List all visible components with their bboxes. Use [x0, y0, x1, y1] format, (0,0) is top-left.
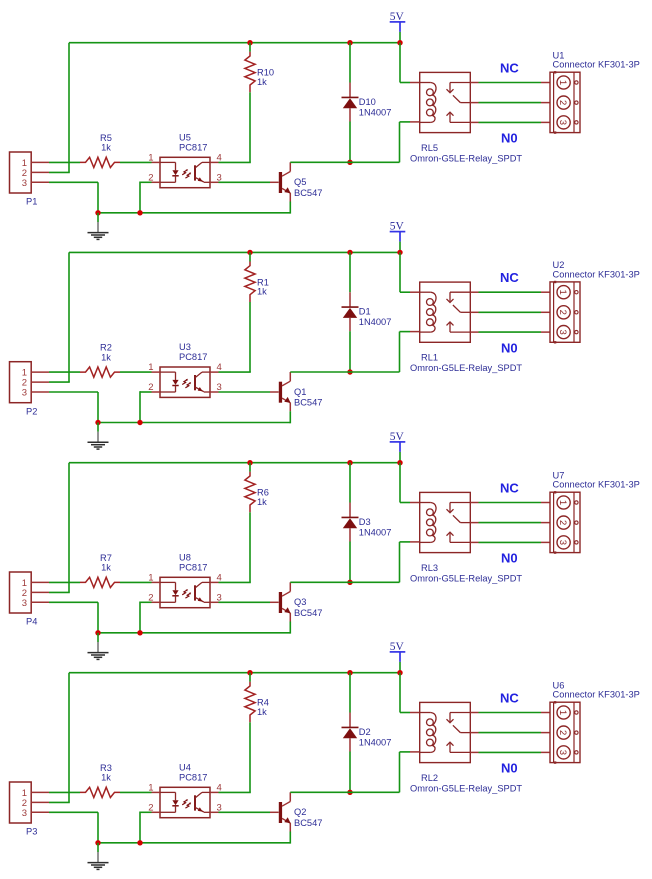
svg-text:3: 3	[22, 598, 27, 609]
wire emitter to ground rail	[289, 622, 291, 634]
wire R1 to opto pin4	[219, 302, 251, 372]
ground symbol	[88, 633, 109, 660]
svg-text:RL3: RL3	[421, 563, 438, 573]
svg-text:1k: 1k	[257, 77, 267, 87]
svg-text:NC: NC	[500, 270, 519, 285]
connector U2 KF301-3P terminal	[541, 281, 580, 344]
svg-text:D1: D1	[359, 307, 371, 317]
wire 5V stub down to rail	[399, 452, 401, 463]
node N0 label	[501, 551, 518, 566]
junction ground/pin3	[95, 840, 100, 845]
label D10 1N4007	[359, 97, 392, 118]
wire 5V stub down to rail	[399, 662, 401, 673]
wire rail to resistor R4	[249, 673, 251, 682]
node NC label	[500, 480, 519, 495]
wire rail to diode D1	[349, 252, 351, 292]
connector P3 (3-pin header)	[10, 782, 50, 823]
wire P2 pin3 down	[49, 392, 98, 423]
wire diode to collector net	[349, 542, 351, 583]
svg-text:P2: P2	[26, 406, 37, 416]
wire rail drop to P2 pin 2	[49, 252, 70, 382]
label R7 1k	[100, 553, 112, 573]
svg-text:Connector KF301-3P: Connector KF301-3P	[553, 269, 640, 279]
wire collector to relay coil	[290, 332, 410, 372]
svg-text:N0: N0	[501, 551, 518, 566]
svg-text:Omron-G5LE-Relay_SPDT: Omron-G5LE-Relay_SPDT	[410, 783, 522, 793]
junction rail/resistor	[247, 670, 252, 675]
wire rail to diode D3	[349, 463, 351, 503]
wire 5V stub down to rail	[399, 242, 401, 253]
svg-text:1k: 1k	[257, 707, 267, 717]
wire opto pin2 down to ground rail	[140, 602, 152, 633]
svg-text:Connector KF301-3P: Connector KF301-3P	[553, 480, 640, 490]
wire N0 net	[479, 541, 542, 543]
junction rail/5V/relay feed	[397, 670, 402, 675]
wire P1 pin3 down	[49, 182, 98, 213]
svg-text:1: 1	[557, 710, 568, 715]
wire bottom ground rail	[98, 842, 290, 844]
label U2 Connector KF301-3P	[553, 260, 640, 279]
wire COM net	[479, 311, 542, 313]
svg-text:N0: N0	[501, 131, 518, 146]
junction rail/diode	[347, 670, 352, 675]
wire rail drop to P4 pin 2	[49, 463, 70, 593]
junction rail/5V/relay feed	[397, 40, 402, 45]
wire rail to resistor R1	[249, 252, 251, 261]
pin numbers 1 2 3 4	[148, 782, 222, 813]
svg-text:PC817: PC817	[179, 352, 207, 362]
pin numbers 1 2 3 4	[148, 362, 222, 393]
node N0 label	[501, 131, 518, 146]
wire diode to collector net	[349, 331, 351, 372]
wire opto pin3 to base	[219, 601, 271, 603]
wire diode to collector net	[349, 752, 351, 793]
svg-text:U4: U4	[179, 763, 191, 773]
label P3	[26, 827, 37, 837]
wire opto pin2 down to ground rail	[140, 391, 152, 422]
svg-text:3: 3	[557, 120, 568, 125]
wire COM net	[479, 522, 542, 524]
svg-text:2: 2	[557, 520, 568, 525]
optocoupler U8 PC817	[152, 577, 219, 607]
wire NC net	[479, 82, 542, 84]
label U6 Connector KF301-3P	[553, 681, 640, 700]
resistor R5 1k (horizontal)	[80, 157, 120, 167]
svg-text:Q2: Q2	[294, 807, 306, 817]
resistor R1 1k (vertical)	[245, 262, 255, 303]
svg-text:NC: NC	[500, 480, 519, 495]
node N0 label	[501, 761, 518, 776]
svg-text:Connector KF301-3P: Connector KF301-3P	[553, 60, 640, 70]
wire 5V to relay coil top	[400, 43, 410, 83]
wire R4 to opto pin4	[219, 722, 251, 792]
wire opto pin3 to base	[219, 391, 271, 393]
svg-text:1: 1	[557, 290, 568, 295]
junction rail/diode	[347, 40, 352, 45]
svg-text:Omron-G5LE-Relay_SPDT: Omron-G5LE-Relay_SPDT	[410, 153, 522, 163]
svg-text:1k: 1k	[257, 287, 267, 297]
junction rail/diode	[347, 250, 352, 255]
relay RL2 Omron G5LE SPDT	[410, 702, 479, 762]
svg-text:P1: P1	[26, 197, 37, 207]
svg-text:Connector KF301-3P: Connector KF301-3P	[553, 690, 640, 700]
svg-text:1k: 1k	[101, 143, 111, 153]
resistor R10 1k (vertical)	[245, 52, 255, 93]
svg-text:Q3: Q3	[294, 597, 306, 607]
wire 5V to relay coil top	[400, 463, 410, 503]
svg-text:BC547: BC547	[294, 608, 322, 618]
svg-text:R7: R7	[100, 553, 112, 563]
label U4 PC817	[179, 763, 207, 783]
svg-text:D2: D2	[359, 727, 371, 737]
junction diode/collector	[347, 580, 352, 585]
diode D2 1N4007	[342, 713, 359, 752]
svg-text:2: 2	[557, 310, 568, 315]
wire rail to diode D10	[349, 43, 351, 83]
diode D3 1N4007	[342, 503, 359, 542]
wire resistor to opto pin 1	[120, 791, 152, 793]
power 5V flag (R4 block)	[390, 641, 406, 662]
label D1 1N4007	[359, 307, 392, 328]
svg-text:NC: NC	[500, 60, 519, 75]
value Omron-G5LE-Relay_SPDT	[410, 363, 522, 373]
wire resistor to opto pin 1	[120, 371, 152, 373]
svg-text:Omron-G5LE-Relay_SPDT: Omron-G5LE-Relay_SPDT	[410, 573, 522, 583]
svg-text:1: 1	[148, 572, 153, 583]
wire bottom ground rail	[98, 212, 290, 214]
relay RL5 Omron G5LE SPDT	[410, 72, 479, 132]
junction ground/opto pin2	[137, 630, 142, 635]
resistor R2 1k (horizontal)	[80, 367, 120, 377]
svg-text:1: 1	[557, 80, 568, 85]
junction rail/5V/relay feed	[397, 250, 402, 255]
label Q1 BC547	[294, 387, 322, 408]
svg-text:3: 3	[22, 388, 27, 399]
wire resistor to opto pin 1	[120, 581, 152, 583]
junction rail/resistor	[247, 40, 252, 45]
power 5V flag (R1 block)	[390, 221, 406, 242]
svg-text:2: 2	[557, 730, 568, 735]
svg-text:PC817: PC817	[179, 563, 207, 573]
wire COM net	[479, 102, 542, 104]
wire bottom ground rail	[98, 422, 290, 424]
wire 5V to relay coil top	[400, 252, 410, 292]
resistor R7 1k (horizontal)	[80, 577, 120, 587]
svg-text:Q1: Q1	[294, 387, 306, 397]
wire emitter to ground rail	[289, 832, 291, 844]
ground symbol	[88, 213, 109, 240]
wire top 5V rail	[69, 462, 400, 464]
resistor R4 1k (vertical)	[245, 682, 255, 723]
junction ground/pin3	[95, 630, 100, 635]
wire 5V to relay coil top	[400, 673, 410, 713]
wire P3 pin1 to resistor R3	[49, 791, 80, 793]
svg-text:RL5: RL5	[421, 143, 438, 153]
wire opto pin3 to base	[219, 181, 271, 183]
svg-text:3: 3	[22, 808, 27, 819]
svg-text:3: 3	[557, 750, 568, 755]
wire opto pin2 down to ground rail	[140, 182, 152, 213]
wire P1 pin1 to resistor R5	[49, 161, 80, 163]
resistor R6 1k (vertical)	[245, 472, 255, 513]
svg-text:U3: U3	[179, 342, 191, 352]
connector U7 KF301-3P terminal	[541, 491, 580, 554]
svg-text:3: 3	[557, 329, 568, 334]
svg-text:1k: 1k	[257, 497, 267, 507]
wire P2 pin1 to resistor R2	[49, 371, 80, 373]
wire rail drop to P3 pin 2	[49, 673, 70, 803]
svg-text:U5: U5	[179, 133, 191, 143]
ground symbol	[88, 843, 109, 870]
svg-text:Q5: Q5	[294, 177, 306, 187]
junction ground/pin3	[95, 420, 100, 425]
wire R6 to opto pin4	[219, 512, 251, 582]
junction rail/resistor	[247, 250, 252, 255]
wire R10 to opto pin4	[219, 92, 251, 162]
label P4	[26, 617, 37, 627]
svg-text:1N4007: 1N4007	[359, 317, 392, 327]
svg-text:1k: 1k	[101, 563, 111, 573]
svg-text:D3: D3	[359, 517, 371, 527]
svg-text:1: 1	[148, 782, 153, 793]
label R1 1k	[257, 277, 269, 296]
ground symbol	[88, 423, 109, 450]
connector U6 KF301-3P terminal	[541, 701, 580, 764]
svg-text:P4: P4	[26, 617, 37, 627]
label RL2	[421, 773, 438, 783]
connector U1 KF301-3P terminal	[541, 71, 580, 134]
pin numbers 1 2 3 4	[148, 572, 222, 603]
optocoupler U4 PC817	[152, 787, 219, 817]
node N0 label	[501, 340, 518, 355]
transistor Q5 BC547	[270, 162, 291, 201]
wire top 5V rail	[69, 42, 400, 44]
node NC label	[500, 270, 519, 285]
wire collector to relay coil	[290, 752, 410, 792]
pin numbers 1 2 3 4	[148, 152, 222, 183]
svg-text:1: 1	[148, 362, 153, 373]
relay RL3 Omron G5LE SPDT	[410, 492, 479, 552]
label U8 PC817	[179, 553, 207, 573]
svg-text:PC817: PC817	[179, 143, 207, 153]
connector P1 (3-pin header)	[10, 152, 50, 193]
svg-text:3: 3	[22, 178, 27, 189]
svg-text:R3: R3	[100, 763, 112, 773]
svg-text:P3: P3	[26, 827, 37, 837]
power 5V flag (R10 block)	[390, 11, 406, 32]
junction rail/5V/relay feed	[397, 460, 402, 465]
wire P4 pin3 down	[49, 602, 98, 633]
label R4 1k	[257, 698, 269, 717]
svg-text:RL1: RL1	[421, 353, 438, 363]
label R6 1k	[257, 488, 269, 507]
svg-text:1N4007: 1N4007	[359, 108, 392, 118]
junction diode/collector	[347, 369, 352, 374]
svg-text:R5: R5	[100, 133, 112, 143]
svg-text:1: 1	[148, 152, 153, 163]
svg-text:1k: 1k	[101, 352, 111, 362]
label D2 1N4007	[359, 727, 392, 748]
svg-text:1: 1	[557, 500, 568, 505]
wire collector to relay coil	[290, 542, 410, 582]
value Omron-G5LE-Relay_SPDT	[410, 783, 522, 793]
svg-text:NC: NC	[500, 690, 519, 705]
label RL3	[421, 563, 438, 573]
label U3 PC817	[179, 342, 207, 362]
label U7 Connector KF301-3P	[553, 471, 640, 490]
junction diode/collector	[347, 160, 352, 165]
junction rail/resistor	[247, 460, 252, 465]
wire COM net	[479, 732, 542, 734]
transistor Q3 BC547	[270, 582, 291, 621]
label R5 1k	[100, 133, 112, 153]
value Omron-G5LE-Relay_SPDT	[410, 153, 522, 163]
label P1	[26, 197, 37, 207]
label R2 1k	[100, 343, 112, 363]
wire P4 pin1 to resistor R7	[49, 581, 80, 583]
wire top 5V rail	[69, 251, 400, 253]
wire opto pin3 to base	[219, 811, 271, 813]
svg-text:1k: 1k	[101, 773, 111, 783]
svg-text:3: 3	[557, 540, 568, 545]
label RL5	[421, 143, 438, 153]
svg-text:Omron-G5LE-Relay_SPDT: Omron-G5LE-Relay_SPDT	[410, 363, 522, 373]
label P2	[26, 406, 37, 416]
svg-text:BC547: BC547	[294, 188, 322, 198]
relay RL1 Omron G5LE SPDT	[410, 282, 479, 342]
wire diode to collector net	[349, 122, 351, 163]
wire rail to diode D2	[349, 673, 351, 713]
diode D10 1N4007	[342, 83, 359, 122]
wire NC net	[479, 502, 542, 504]
power 5V flag (R6 block)	[390, 431, 406, 452]
wire collector to relay coil	[290, 122, 410, 162]
junction ground/pin3	[95, 210, 100, 215]
svg-text:RL2: RL2	[421, 773, 438, 783]
wire rail to resistor R6	[249, 463, 251, 472]
wire rail drop to P1 pin 2	[49, 43, 70, 173]
node NC label	[500, 690, 519, 705]
connector P4 (3-pin header)	[10, 572, 50, 613]
svg-text:1N4007: 1N4007	[359, 738, 392, 748]
label U5 PC817	[179, 133, 207, 153]
svg-text:BC547: BC547	[294, 398, 322, 408]
svg-text:R2: R2	[100, 343, 112, 353]
wire N0 net	[479, 751, 542, 753]
svg-text:1N4007: 1N4007	[359, 528, 392, 538]
resistor R3 1k (horizontal)	[80, 787, 120, 797]
wire bottom ground rail	[98, 632, 290, 634]
svg-text:N0: N0	[501, 340, 518, 355]
wire N0 net	[479, 331, 542, 333]
wire P3 pin3 down	[49, 812, 98, 843]
svg-text:BC547: BC547	[294, 818, 322, 828]
svg-text:N0: N0	[501, 761, 518, 776]
label Q2 BC547	[294, 807, 322, 828]
junction ground/opto pin2	[137, 420, 142, 425]
optocoupler U5 PC817	[152, 157, 219, 187]
transistor Q1 BC547	[270, 372, 291, 411]
node NC label	[500, 60, 519, 75]
label Q5 BC547	[294, 177, 322, 198]
wire opto pin2 down to ground rail	[140, 812, 152, 843]
label R3 1k	[100, 763, 112, 783]
wire emitter to ground rail	[289, 202, 291, 214]
svg-text:PC817: PC817	[179, 773, 207, 783]
connector P2 (3-pin header)	[10, 362, 50, 403]
wire resistor to opto pin 1	[120, 161, 152, 163]
svg-text:D10: D10	[359, 97, 376, 107]
wire emitter to ground rail	[289, 411, 291, 423]
wire top 5V rail	[69, 672, 400, 674]
diode D1 1N4007	[342, 292, 359, 331]
wire 5V stub down to rail	[399, 32, 401, 43]
junction diode/collector	[347, 790, 352, 795]
transistor Q2 BC547	[270, 792, 291, 831]
svg-text:2: 2	[557, 100, 568, 105]
junction ground/opto pin2	[137, 840, 142, 845]
wire rail to resistor R10	[249, 43, 251, 52]
wire NC net	[479, 712, 542, 714]
wire NC net	[479, 291, 542, 293]
value Omron-G5LE-Relay_SPDT	[410, 573, 522, 583]
label U1 Connector KF301-3P	[553, 51, 640, 70]
label R10 1k	[257, 68, 274, 87]
junction rail/diode	[347, 460, 352, 465]
optocoupler U3 PC817	[152, 367, 219, 397]
svg-text:U8: U8	[179, 553, 191, 563]
label D3 1N4007	[359, 517, 392, 538]
junction ground/opto pin2	[137, 210, 142, 215]
label RL1	[421, 353, 438, 363]
label Q3 BC547	[294, 597, 322, 618]
wire N0 net	[479, 121, 542, 123]
